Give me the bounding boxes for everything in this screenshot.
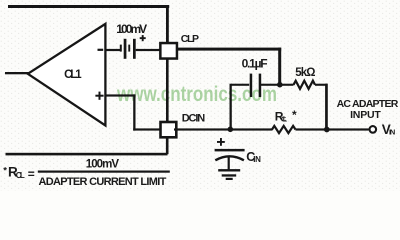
- svg-text:100mV: 100mV: [116, 22, 147, 36]
- svg-text:CL: CL: [281, 117, 288, 124]
- svg-text:CLP: CLP: [181, 33, 199, 45]
- svg-text:INPUT: INPUT: [350, 109, 381, 121]
- svg-text:*: *: [3, 166, 7, 177]
- svg-text:CL1: CL1: [64, 69, 82, 81]
- svg-text:5kΩ: 5kΩ: [295, 67, 315, 79]
- svg-text:*: *: [292, 108, 297, 122]
- svg-text:CL: CL: [16, 171, 25, 180]
- svg-text:IN: IN: [253, 155, 261, 164]
- svg-text:www.cntronics.com: www.cntronics.com: [116, 82, 277, 106]
- svg-text:ADAPTER CURRENT LIMIT: ADAPTER CURRENT LIMIT: [39, 176, 167, 188]
- svg-text:AC ADAPTER: AC ADAPTER: [337, 98, 399, 110]
- svg-text:=: =: [28, 167, 35, 181]
- svg-text:DCIN: DCIN: [182, 113, 206, 125]
- svg-text:0.1µF: 0.1µF: [242, 56, 268, 70]
- svg-text:IN: IN: [389, 128, 395, 137]
- svg-text:100mV: 100mV: [86, 159, 120, 171]
